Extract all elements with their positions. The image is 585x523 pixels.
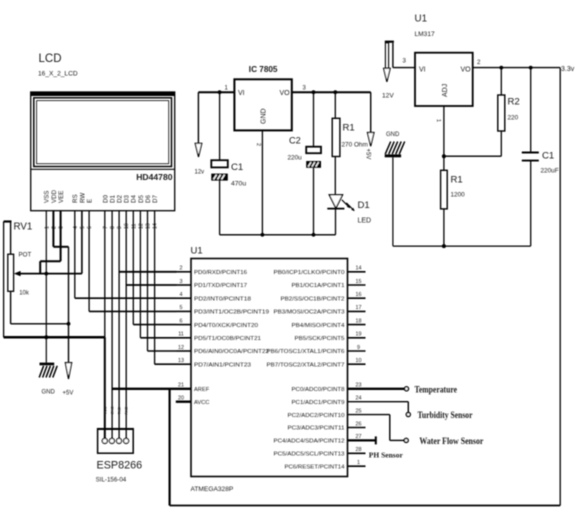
wire LM317 output [473,59,561,68]
svg-text:4: 4 [73,226,79,229]
LCD title label [38,53,78,78]
svg-text:D5: D5 [138,195,145,203]
svg-text:GND: GND [42,390,56,396]
wire E to pin5 [89,211,176,312]
svg-text:26: 26 [356,421,362,427]
svg-text:TXD: TXD [118,407,122,415]
wire water flow sensor [348,415,405,441]
svg-text:1: 1 [44,226,50,229]
op-amp U1 ATMEGA328P body [191,246,348,494]
svg-text:PB4/MISO/PCINT4: PB4/MISO/PCINT4 [292,323,345,329]
svg-text:PD6/AIN0/OC0A/PCINT22: PD6/AIN0/OC0A/PCINT22 [194,349,269,355]
svg-text:PD7/AIN1/PCINT23: PD7/AIN1/PCINT23 [194,362,251,368]
node turbidity terminal [406,413,410,417]
svg-text:PD0/RXD/PCINT16: PD0/RXD/PCINT16 [194,270,247,276]
svg-text:10: 10 [356,358,362,364]
node water flow terminal [404,438,408,442]
wire LM317 bottom rail [393,245,531,247]
svg-text:11: 11 [131,224,137,229]
svg-text:D3: D3 [124,195,131,203]
wire RV1 top terminal [4,222,12,338]
svg-text:12: 12 [178,345,184,351]
svg-text:12V: 12V [382,93,394,100]
svg-text:R1: R1 [451,175,463,186]
svg-text:PC0/ADC0/PCINT8: PC0/ADC0/PCINT8 [292,387,345,393]
node output C2 junction [312,90,316,94]
wire RW to wiper line [81,211,83,274]
U1 right pin rows PC0-PC6 [274,383,366,471]
svg-text:R1: R1 [343,123,355,134]
svg-text:AVCC: AVCC [194,400,209,406]
power symbol 12V input flag [382,41,394,100]
wire D1 to ESP pin2 [111,211,113,439]
node wiper-VSS junction [44,272,48,276]
svg-text:D4: D4 [131,195,138,203]
wire D3 to ESP pin4 [125,211,127,439]
svg-text:VCC: VCC [103,406,107,414]
wire bottom 3.3v rail [170,505,561,507]
svg-text:PB7/TOSC2/XTAL2/PCINT7: PB7/TOSC2/XTAL2/PCINT7 [267,362,345,368]
svg-text:PC4/ADC4/SDA/PCINT12: PC4/ADC4/SDA/PCINT12 [274,439,345,445]
U1 right pin rows PB0-PB7 [267,266,366,369]
wire PH sensor [348,436,376,444]
svg-text:PD4/T0/XCK/PCINT20: PD4/T0/XCK/PCINT20 [194,323,258,329]
U1 pin 21 AREF and pin 20 AVCC [176,383,210,406]
wire 7805 GND pin 2 [255,130,262,234]
ground symbol GND [39,363,57,396]
wire 12v input to 7805 pin 1 [198,85,234,143]
svg-text:14: 14 [356,266,362,272]
svg-text:D2: D2 [117,195,124,203]
svg-text:2: 2 [180,266,183,272]
wire U1 pin3 branch [126,284,176,286]
svg-text:GND: GND [386,132,400,138]
svg-text:1: 1 [357,460,360,466]
svg-text:25: 25 [356,408,362,414]
svg-text:3: 3 [180,279,183,285]
RV1 wiper arrow [14,271,82,276]
ESP8266 pin circles [102,438,128,443]
wire AREF net [112,389,191,506]
svg-text:U1: U1 [191,246,203,257]
svg-text:D0: D0 [102,195,109,203]
svg-text:VI: VI [238,90,245,97]
wire VSS to GND [45,211,47,363]
svg-text:PD2/INT0/PCINT18: PD2/INT0/PCINT18 [194,296,251,302]
svg-text:6: 6 [180,318,183,324]
LCD module outline [31,92,175,211]
wire 7805 bottom rail [220,234,336,236]
LCD pin number labels [44,223,158,229]
wire VEE to wiper [40,211,60,274]
svg-text:HD44780: HD44780 [136,172,173,182]
resistor R1 1200 [441,156,466,246]
svg-text:PB1/OC1A/PCINT1: PB1/OC1A/PCINT1 [292,283,345,289]
svg-text:D1: D1 [110,195,117,203]
svg-text:E: E [87,199,94,203]
resistor RV1 POT label [14,222,33,297]
svg-text:20: 20 [178,396,184,402]
wire D7 to pin13 [155,211,177,365]
svg-text:LM317: LM317 [415,31,435,38]
wire D6 to pin12 [148,211,177,351]
svg-text:C1: C1 [542,151,554,162]
wire temperature sensor [348,388,405,390]
svg-text:5: 5 [180,305,183,311]
svg-text:VO: VO [461,67,472,74]
svg-text:GND: GND [111,406,115,415]
diode D1 LED [327,195,371,235]
svg-text:28: 28 [356,447,362,453]
svg-text:12: 12 [138,223,144,229]
node pot-bottom +5V junction [67,322,71,326]
svg-text:C1: C1 [231,162,243,173]
svg-text:GND: GND [261,108,268,124]
wire D0 to ESP pin1 [104,211,106,338]
svg-text:5: 5 [80,226,86,229]
svg-text:+5V: +5V [63,391,74,397]
svg-text:16: 16 [356,292,362,298]
svg-text:Turbidity Sensor: Turbidity Sensor [418,410,473,420]
node temperature terminal [405,387,409,391]
ground symbol GND LM317 [385,132,405,246]
svg-text:ADJ: ADJ [442,84,449,97]
svg-text:18: 18 [356,318,362,324]
ESP8266 connector body [98,428,134,453]
svg-text:9: 9 [357,345,360,351]
node rail pin2 junction [261,233,265,237]
svg-text:13: 13 [178,358,184,364]
capacitor C1 220uF [522,68,559,247]
svg-text:19: 19 [356,332,362,338]
svg-text:SIL-156-04: SIL-156-04 [96,477,127,484]
svg-text:D7: D7 [152,195,159,203]
wire U1 pin2 branch [119,271,176,273]
node output R2 junction [499,66,503,70]
svg-text:270 Ohm: 270 Ohm [342,142,368,149]
svg-text:RV1: RV1 [14,222,33,233]
svg-text:PB2/SS/OC1B/PCINT2: PB2/SS/OC1B/PCINT2 [281,296,345,302]
svg-text:15: 15 [356,279,362,285]
svg-text:RXD: RXD [125,406,129,414]
capacitor C1 470u [211,92,246,235]
node rail C2 junction [312,233,316,237]
svg-text:PD5/T1/OC0B/PCINT21: PD5/T1/OC0B/PCINT21 [194,336,261,342]
svg-text:ATMEGA328P: ATMEGA328P [191,486,234,493]
svg-text:RS: RS [72,194,79,203]
svg-text:R2: R2 [508,97,520,108]
svg-text:PD3/INT1/OC2B/PCINT19: PD3/INT1/OC2B/PCINT19 [194,310,269,316]
svg-text:LED: LED [358,218,372,225]
svg-text:POT: POT [19,252,32,259]
node rail-VSS junction [44,335,48,339]
svg-text:1200: 1200 [451,192,466,199]
regulator U1 LM317 body [415,53,473,106]
svg-text:9: 9 [117,226,123,229]
svg-text:PB5/SCK/PCINT5: PB5/SCK/PCINT5 [295,336,345,342]
svg-text:16_X_2_LCD: 16_X_2_LCD [38,71,78,78]
node output R1 junction [333,90,337,94]
wire ground rail [4,337,105,438]
svg-text:VDD: VDD [51,189,58,203]
svg-text:D6: D6 [145,195,152,203]
wire 7805 output [292,85,371,92]
svg-text:PD1/TXD/PCINT17: PD1/TXD/PCINT17 [194,283,247,289]
svg-text:17: 17 [356,305,362,311]
regulator U1 LM317 label [415,14,435,39]
svg-text:12v: 12v [195,170,205,176]
svg-text:PC6/RESET/PCINT14: PC6/RESET/PCINT14 [285,464,345,470]
svg-text:Water Flow Sensor: Water Flow Sensor [419,436,483,446]
ESP8266 pin net labels [103,406,128,415]
svg-text:8: 8 [110,226,116,229]
svg-text:VO: VO [280,90,291,97]
svg-text:2: 2 [255,143,261,146]
svg-text:PB0/ICP1/CLKO/PCINT0: PB0/ICP1/CLKO/PCINT0 [274,270,345,276]
svg-text:13: 13 [146,223,152,229]
svg-text:C2: C2 [289,136,301,146]
svg-text:IC 7805: IC 7805 [249,65,278,74]
svg-text:3.3v: 3.3v [561,66,575,73]
wire 12V to LM317 VI [393,43,415,68]
wire turbidity sensor [348,402,409,413]
svg-text:220: 220 [508,115,519,122]
svg-text:220uF: 220uF [541,168,559,175]
wire D4 to pin6 [133,211,176,325]
power symbol +5V at 7805 output [364,92,374,159]
power symbol 12v input [195,143,205,175]
node R1 bottom junction [442,244,446,248]
svg-text:11: 11 [178,332,184,338]
svg-text:220u: 220u [288,155,303,162]
regulator IC 7805 body [234,79,291,130]
wire ADJ to R2 [444,155,501,157]
svg-text:D1: D1 [358,200,370,211]
svg-text:VEE: VEE [58,191,65,203]
node 7805 input C1 junction [218,90,222,94]
svg-text:VSS: VSS [44,191,51,203]
svg-text:PC5/ADC5/SCL/PCINT13: PC5/ADC5/SCL/PCINT13 [274,452,345,458]
wire RS to pin4 [75,211,177,299]
ESP8266 labels [96,460,143,484]
svg-text:VI: VI [419,67,426,74]
svg-text:470u: 470u [231,181,246,188]
wire D5 to pin11 [140,211,176,338]
svg-text:+5V: +5V [364,149,370,160]
wire VDD to +5V [53,211,68,363]
svg-text:RW: RW [79,193,86,203]
svg-text:ESP8266: ESP8266 [97,460,143,472]
wire 3.3v right riser [559,68,561,506]
capacitor C2 220u [288,92,322,235]
svg-text:10: 10 [124,223,130,229]
svg-text:AREF: AREF [194,387,210,393]
svg-text:1: 1 [435,119,441,122]
svg-text:14: 14 [153,223,159,229]
wire LM317 ADJ pin 1 [435,106,444,156]
svg-text:4: 4 [180,292,183,298]
svg-text:7: 7 [103,226,109,229]
svg-text:PH Sensor: PH Sensor [369,450,404,459]
svg-text:PC1/ADC1/PCINT9: PC1/ADC1/PCINT9 [292,400,345,406]
svg-text:PC3/ADC3/PCINT11: PC3/ADC3/PCINT11 [288,426,345,432]
svg-text:PB3/MOSI/OC2A/PCINT3: PB3/MOSI/OC2A/PCINT3 [274,310,345,316]
svg-text:10k: 10k [19,291,30,297]
svg-text:PB6/TOSC1/XTAL1/PCINT6: PB6/TOSC1/XTAL1/PCINT6 [267,349,345,355]
U1 left pin rows PD0-PD7 [177,266,270,369]
svg-text:LCD: LCD [39,53,62,65]
svg-text:U1: U1 [415,14,428,25]
svg-text:Temperature: Temperature [415,385,458,395]
power symbol +5V [63,363,74,397]
svg-text:3: 3 [403,58,407,65]
resistor R2 220 [498,68,520,157]
wire D2 to ESP pin3 [118,211,120,439]
svg-text:PC2/ADC2/PCINT10: PC2/ADC2/PCINT10 [288,413,345,419]
resistor RV1 body [8,254,14,291]
node output C1 junction [529,66,533,70]
resistor R1 270 Ohm [332,92,368,195]
svg-text:2: 2 [477,59,481,66]
wire RV1 bottom terminal to +5V line [11,291,69,324]
svg-text:24: 24 [356,396,362,402]
LCD pin name labels [44,189,159,203]
svg-text:6: 6 [87,226,93,229]
node ADJ junction [442,154,446,158]
